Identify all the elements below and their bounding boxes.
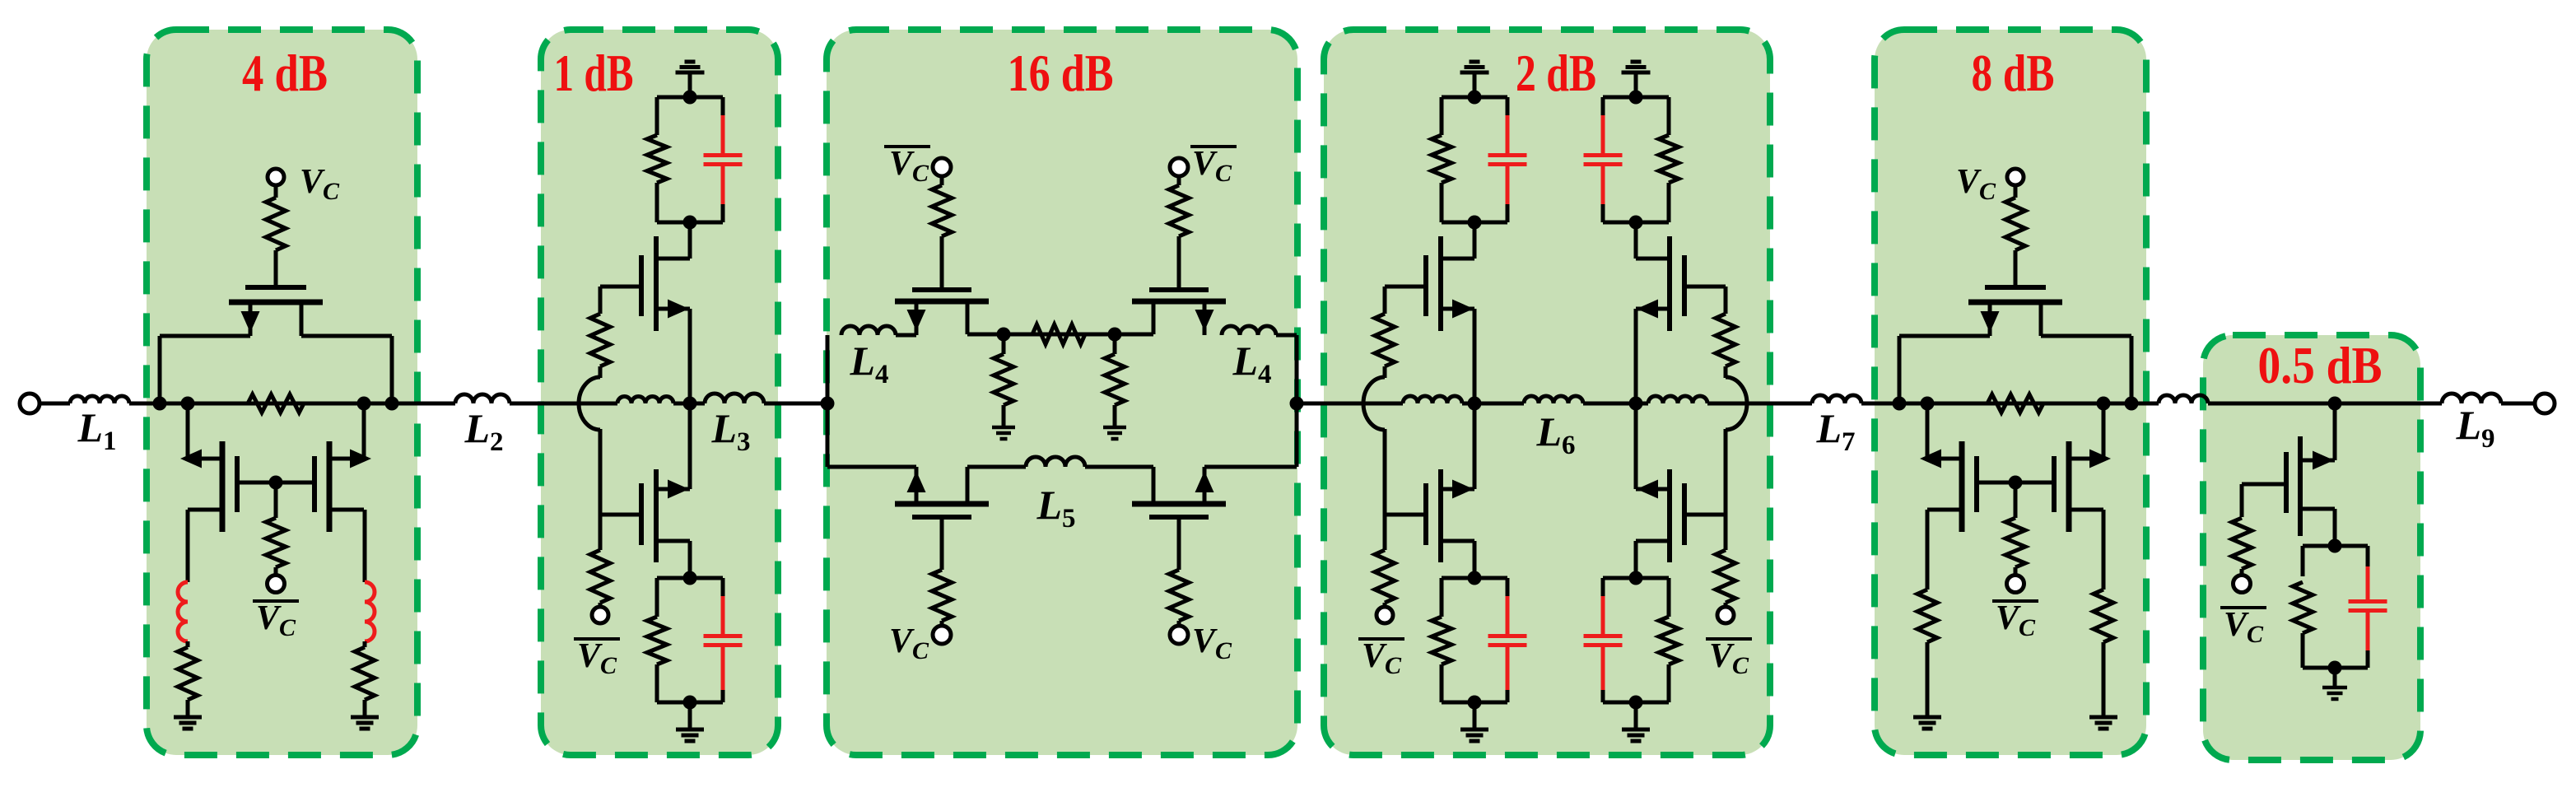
svg-text:4 dB: 4 dB [242, 44, 328, 102]
svg-text:8 dB: 8 dB [1972, 44, 2055, 102]
svg-text:0.5 dB: 0.5 dB [2258, 337, 2383, 394]
svg-text:16 dB: 16 dB [1008, 44, 1114, 102]
svg-text:1 dB: 1 dB [554, 44, 634, 102]
svg-text:2 dB: 2 dB [1516, 44, 1596, 102]
